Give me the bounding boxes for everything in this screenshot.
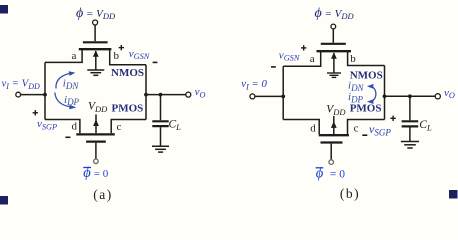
svg-text:= 0: = 0: [327, 168, 345, 180]
plus vSGP (b): [390, 116, 395, 121]
svg-text:NMOS: NMOS: [111, 67, 144, 79]
wire input (a): [21, 94, 45, 96]
wire source b (b): [348, 52, 385, 66]
PMOS body arrow (b): [333, 116, 335, 134]
svg-text:b: b: [114, 50, 120, 62]
svg-text:b: b: [350, 53, 356, 65]
PMOS gate stub (a): [95, 143, 97, 159]
PMOS QP gate bar (a): [86, 141, 106, 143]
svg-text:d: d: [72, 121, 78, 133]
svg-text:ϕ: ϕ: [316, 165, 324, 181]
ground CL (b): [401, 142, 419, 149]
clock-bar terminal (b): [329, 160, 334, 165]
wire input (b): [255, 95, 283, 97]
svg-text:a: a: [72, 50, 77, 62]
node output junction (a): [144, 93, 148, 97]
wire left rail (b): [282, 66, 284, 119]
svg-text:ϕ: ϕ: [83, 165, 91, 181]
current arrow iDP (a): [55, 93, 72, 108]
corner mark bottom-right: [449, 190, 458, 199]
label phi = VDD (a): [76, 6, 116, 21]
input terminal (a): [16, 92, 21, 97]
corner mark bottom-left: [0, 196, 8, 205]
capacitor CL (a): [160, 95, 162, 121]
node cap junction (b): [408, 94, 412, 98]
PMOS QP gate bar (b): [321, 141, 343, 143]
wire source b (a): [110, 50, 146, 65]
node cap junction (a): [159, 93, 163, 97]
label phi = VDD (b): [315, 6, 355, 21]
minus vSGP (b): [362, 134, 367, 136]
minus vSGP (a): [65, 136, 70, 138]
clock terminal (b): [331, 24, 336, 29]
clock terminal (a): [93, 20, 98, 25]
NMOS QN gate bar (b): [321, 43, 346, 45]
wire drain a (a): [45, 50, 82, 62]
PMOS QP channel bar (b): [319, 134, 349, 136]
node input junction (b): [281, 95, 285, 99]
label phi-bar = 0 (a): [83, 165, 108, 181]
plus vSGP (a): [33, 110, 38, 115]
NMOS QN channel bar (a): [79, 48, 112, 50]
svg-text:a: a: [310, 53, 315, 65]
wire right rail (a): [145, 65, 147, 120]
svg-text:= 0: = 0: [94, 168, 109, 180]
svg-text:NMOS: NMOS: [350, 70, 383, 82]
label phi-bar = 0 (b): [316, 165, 346, 181]
svg-text:(b): (b): [340, 186, 360, 201]
svg-text:c: c: [354, 123, 359, 135]
node input junction (a): [43, 93, 47, 97]
minus vGSN (a): [153, 61, 158, 63]
plus vGSN (a): [119, 45, 124, 50]
PMOS QP channel bar (a): [76, 133, 115, 135]
wire output (b): [385, 95, 436, 97]
wire source c (b): [348, 120, 385, 135]
input terminal (b): [250, 94, 255, 99]
wire right rail (b): [384, 66, 386, 120]
wire output (a): [146, 94, 186, 96]
svg-text:vI = 0: vI = 0: [241, 78, 267, 91]
corner mark top-left: [0, 5, 8, 14]
PMOS gate stub (b): [330, 144, 332, 160]
wire gate stub (a): [94, 25, 96, 41]
NMOS QN gate bar (a): [83, 41, 108, 43]
NMOS QN channel bar (b): [317, 50, 352, 52]
ground NMOS body (a): [87, 70, 104, 75]
wire gate stub (b): [332, 29, 334, 43]
ground CL (a): [152, 146, 169, 152]
svg-text:PMOS: PMOS: [112, 103, 144, 115]
PMOS body arrow (a): [95, 114, 97, 133]
node output junction (b): [383, 94, 387, 98]
clock-bar terminal (a): [94, 159, 99, 164]
svg-text:c: c: [117, 121, 122, 133]
svg-text:PMOS: PMOS: [350, 103, 382, 115]
NMOS body arrow (a): [95, 51, 97, 70]
output terminal (b): [435, 94, 440, 99]
NMOS body arrow (b): [333, 53, 335, 73]
capacitor CL (b): [409, 96, 411, 120]
plus vGSN (b): [301, 45, 306, 50]
wire left rail (a): [44, 62, 46, 119]
svg-text:d: d: [310, 123, 316, 135]
wire drain d (a): [45, 120, 80, 134]
wire drain a (b): [283, 52, 321, 66]
ground NMOS body (b): [327, 73, 341, 77]
output terminal (a): [186, 92, 191, 97]
wire drain d (b): [283, 120, 319, 135]
current arrow iDN (a): [56, 73, 71, 88]
svg-text:(a): (a): [93, 187, 112, 202]
minus vGSN (b): [271, 66, 276, 68]
wire source c (a): [111, 120, 146, 134]
current C-arrow (b): [370, 86, 376, 102]
